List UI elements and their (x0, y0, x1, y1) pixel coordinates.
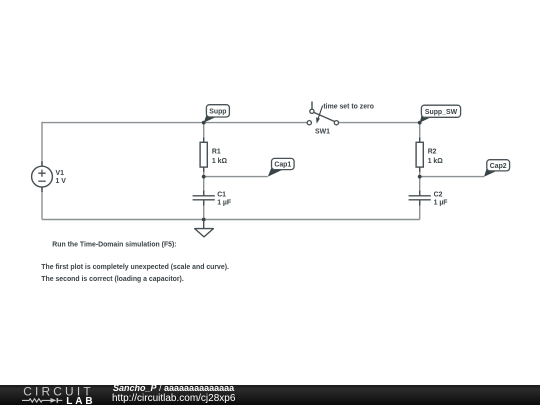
CircuitLab logo (0, 385, 110, 405)
svg-text:LAB: LAB (66, 396, 95, 405)
footer text line 2 (112, 393, 235, 404)
wire R2/C2 column (419, 122, 421, 220)
svg-text:time set to zero: time set to zero (323, 104, 374, 111)
footer bar (0, 385, 540, 405)
wire Cap2 stub (420, 176, 484, 178)
svg-text:1 V: 1 V (56, 178, 67, 185)
svg-text:C2: C2 (434, 192, 443, 199)
wire top rail left segment (42, 122, 309, 124)
svg-text:C1: C1 (217, 192, 226, 199)
svg-text:1 kΩ: 1 kΩ (212, 158, 228, 165)
footer text line 1 (113, 383, 234, 393)
switch SW1 (307, 102, 338, 136)
svg-text:1 µF: 1 µF (434, 199, 448, 206)
flag Cap2 (484, 160, 510, 177)
ground (195, 220, 214, 237)
capacitor C1 (193, 191, 232, 207)
wire bottom rail (42, 219, 420, 221)
flag Cap1 (268, 158, 294, 176)
flag Supp (204, 105, 230, 123)
svg-text:The first plot is completely u: The first plot is completely unexpected … (41, 264, 229, 271)
svg-text:Run the Time-Domain simulation: Run the Time-Domain simulation (F5): (52, 241, 176, 248)
svg-text:SW1: SW1 (315, 128, 330, 135)
wire left column (41, 122, 43, 220)
resistor R1 (200, 138, 227, 173)
wire top rail right segment (337, 122, 420, 124)
wire R1/C1 column (203, 123, 205, 220)
junction node Supp (202, 121, 206, 125)
junction node Cap1 (202, 175, 206, 179)
annotation arrow: time set to zero (316, 104, 374, 124)
voltage source V1 (32, 161, 67, 192)
svg-text:Supp_SW: Supp_SW (425, 109, 458, 116)
svg-text:R1: R1 (212, 148, 221, 155)
svg-text:1 µF: 1 µF (217, 199, 231, 206)
flag Supp_SW (420, 105, 461, 122)
svg-text:V1: V1 (56, 170, 65, 177)
resistor R2 (416, 138, 443, 173)
svg-text:Cap1: Cap1 (274, 162, 291, 169)
junction node Cap2 (418, 175, 422, 179)
svg-text:Supp: Supp (209, 109, 226, 116)
junction node bottom C1 (202, 218, 206, 222)
svg-text:Cap2: Cap2 (490, 163, 507, 170)
svg-text:1 kΩ: 1 kΩ (428, 158, 444, 165)
svg-text:R2: R2 (428, 148, 437, 155)
wire Cap1 stub (204, 176, 268, 178)
junction node Supp_SW (418, 121, 422, 125)
svg-text:The second is correct (loading: The second is correct (loading a capacit… (41, 276, 184, 283)
capacitor C2 (409, 191, 448, 207)
